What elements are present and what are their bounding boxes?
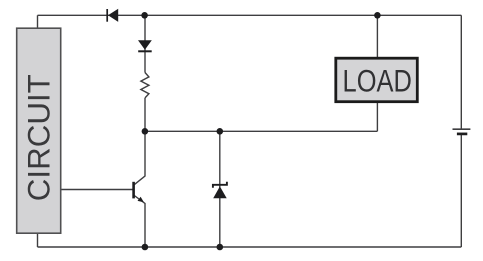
- circuit box: [17, 28, 61, 233]
- diode D2 (vertical, cathode down): [138, 40, 152, 51]
- transistor emitter arrow: [138, 197, 144, 203]
- wire: right rail lower (from battery): [460, 134, 462, 247]
- load box: [336, 58, 418, 101]
- junction node: top load: [374, 12, 381, 19]
- junction node: mid zener: [217, 128, 224, 135]
- wire: circuit box top stub: [37, 15, 39, 28]
- wire: right rail upper (to battery): [460, 15, 462, 129]
- transistor collector: [134, 131, 145, 185]
- diode D1 (horizontal, cathode left): [107, 9, 118, 22]
- battery cell: [453, 129, 471, 134]
- transistor Q (NPN) base bar: [132, 182, 135, 199]
- zener diode Z (cathode up): [213, 182, 227, 199]
- transistor emitter: [134, 195, 145, 247]
- wire: resistor bottom to mid rail: [144, 98, 146, 131]
- wire: diode/resistor chain vertical: [144, 15, 146, 72]
- wire: load top stub: [376, 15, 378, 57]
- junction node: bottom zener: [217, 244, 224, 251]
- wire: mid rail: [145, 130, 377, 132]
- junction node: bottom emitter: [142, 244, 149, 251]
- svg-text:LOAD: LOAD: [343, 63, 412, 99]
- wire: zener vertical: [219, 131, 221, 247]
- wire: circuit box bottom stub: [37, 233, 39, 247]
- resistor R: [141, 73, 149, 98]
- wire: load bottom stub: [376, 103, 378, 132]
- wire: top rail: [38, 14, 462, 16]
- wire: bottom rail: [38, 246, 462, 248]
- svg-text:CIRCUIT: CIRCUIT: [21, 74, 57, 201]
- junction node: mid chain: [142, 128, 149, 135]
- junction node: top chain: [141, 12, 148, 19]
- wire: base wire: [61, 189, 134, 191]
